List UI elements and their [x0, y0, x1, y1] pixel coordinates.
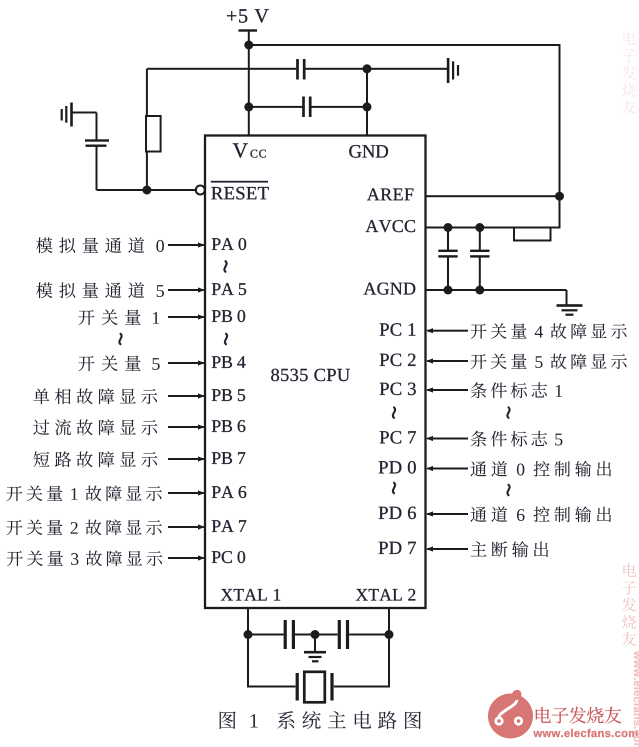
watermark logo url — [533, 729, 637, 737]
wire/arrow into pin PC7 — [426, 436, 468, 441]
pin label PA7 — [212, 520, 246, 532]
pin label PC0 — [212, 551, 245, 563]
label channel6 ctrl out — [471, 506, 612, 522]
wire AGND down to ground — [566, 290, 568, 305]
tilde between PD0-PD6 pin column — [393, 483, 395, 493]
pin label PB5 — [212, 389, 245, 401]
capacitor C5 lead bottom — [96, 147, 98, 190]
label overcurrent fault — [33, 419, 157, 435]
inductor L1 bump on AVCC wire — [514, 228, 551, 241]
pin label RESET — [211, 181, 269, 200]
ground G1 sideways left — [61, 103, 73, 127]
wire Vcc lead vertical — [248, 31, 250, 136]
tilde between condition flag labels — [507, 407, 509, 418]
node junction AREF — [555, 192, 564, 201]
wire/arrow into pin PB4 — [168, 360, 205, 365]
wire AREF pin — [426, 195, 561, 197]
label main break out — [471, 541, 548, 557]
pin label AVCC — [366, 220, 415, 232]
capacitor C3 lead top — [447, 228, 449, 250]
wire AVCC pin — [426, 227, 561, 229]
capacitor C4 lead top — [479, 228, 481, 250]
label switch5 fault disp — [471, 353, 627, 369]
capacitor C1 plates — [296, 59, 305, 80]
ground G2 sideways — [447, 58, 459, 83]
wire/arrow into pin PB0 — [168, 314, 205, 319]
wire mid ground stub — [314, 635, 316, 652]
pin label PD6 — [379, 507, 416, 519]
pin label PB6 — [212, 420, 245, 432]
wire RESET horizontal — [97, 189, 197, 191]
wire/arrow into pin PA6 — [168, 490, 205, 495]
capacitor C4 plates — [470, 250, 489, 258]
label analog channel 0 — [36, 237, 164, 253]
wire/arrow into pin PB5 — [168, 393, 205, 398]
wire row1 mid segment — [305, 68, 367, 70]
wire crystal right — [334, 686, 389, 688]
capacitor C5 plates — [85, 139, 109, 147]
power +5V terminal bar — [239, 29, 258, 31]
pin label PC7 — [380, 431, 416, 443]
node junction +5V/wireA — [244, 41, 253, 50]
wire cap row segment 3 — [349, 634, 389, 636]
wire row2 left segment — [249, 106, 302, 108]
pin label Vcc — [233, 143, 266, 157]
node junction row2 gnd lead — [363, 102, 372, 111]
pin label XTAL1 — [221, 589, 280, 601]
pin label PD0 — [379, 461, 416, 474]
pin label PA0 — [212, 238, 246, 250]
wire/arrow into pin PA7 — [168, 524, 205, 529]
wire ground G1 to cap — [72, 112, 97, 114]
capacitor C5 lead top — [96, 113, 98, 140]
capacitor C3 plates — [438, 250, 457, 258]
node junction xtal2 cap — [385, 630, 394, 639]
wire XTAL2 lead — [388, 608, 390, 687]
capacitor C7 plates — [338, 620, 349, 649]
label switch4 fault disp — [471, 323, 627, 339]
pin label PA5 — [212, 283, 246, 295]
wire crystal left — [248, 686, 295, 688]
pin label PC3 — [380, 383, 416, 395]
label channel0 ctrl out — [471, 461, 612, 477]
label short-circuit fault — [33, 451, 157, 467]
watermark logo circle — [488, 690, 533, 739]
node junction AVCC cap2 — [475, 223, 484, 232]
node junction row1 gnd lead — [363, 64, 372, 73]
wire/arrow into pin PD6 — [426, 511, 468, 516]
wire row1 to ground G2 — [367, 68, 447, 70]
resistor R1 lead top — [146, 69, 148, 116]
wire/arrow into pin PC1 — [426, 328, 468, 333]
pin label PC1 — [380, 323, 416, 335]
tilde between switch 1-5 labels — [119, 334, 121, 344]
reset bubble — [196, 186, 205, 195]
watermark right-edge vertical url — [634, 651, 639, 747]
ground G4 crystal — [304, 651, 326, 663]
crystal Y1 body — [304, 672, 325, 703]
tilde between channel ctrl labels — [507, 485, 509, 495]
crystal Y1 right plate — [330, 673, 333, 701]
label switch 1 — [78, 309, 159, 325]
power +5V label — [227, 9, 269, 23]
label switch2 fault disp — [6, 519, 161, 535]
capacitor C6 plates — [284, 620, 295, 649]
wire XTAL1 lead — [247, 608, 249, 687]
wire/arrow into pin PC0 — [168, 555, 205, 560]
node junction AVCC cap1 — [444, 223, 453, 232]
capacitor C4 lead bottom — [479, 258, 481, 291]
wire row1 gnd-net left segment — [147, 68, 296, 70]
pin label PB0 — [212, 310, 245, 322]
node junction cap-gnd mid — [311, 630, 320, 639]
watermark right-edge vertical brand — [622, 563, 636, 646]
capacitor C2 plates — [302, 97, 311, 118]
resistor R1 lead bottom — [146, 152, 148, 192]
wire vertical AREF to AVCC net — [559, 196, 561, 227]
resistor R1 body — [146, 116, 161, 152]
node junction row2 vcc lead — [244, 102, 253, 111]
tilde between PC3-PC7 pin column — [393, 407, 395, 418]
label switch 5 — [78, 355, 159, 371]
pin label XTAL2 — [356, 589, 415, 601]
pin label PA6 — [212, 486, 246, 498]
label switch1 fault disp — [6, 485, 161, 501]
watermark logo text — [536, 707, 622, 724]
wire GND pin lead vertical — [366, 69, 368, 136]
wire/arrow into pin PD7 — [426, 546, 468, 551]
wire/arrow into pin PA5 — [168, 287, 205, 292]
wire row2 right segment — [311, 106, 367, 108]
wire/arrow into pin PB7 — [168, 456, 205, 461]
capacitor C3 lead bottom — [447, 258, 449, 291]
pin label PB4 — [212, 356, 246, 368]
label condition flag 5 — [471, 431, 563, 447]
tilde between PB0-PB4 pin column — [225, 334, 227, 344]
label condition flag 1 — [471, 382, 562, 398]
pin label PC2 — [380, 354, 416, 366]
node junction AGND cap2 — [475, 286, 484, 295]
wire/arrow into pin PA0 — [168, 242, 205, 247]
node junction xtal1 cap — [244, 630, 253, 639]
pin label AREF — [367, 188, 413, 200]
tilde between PA0-PA5 — [224, 261, 226, 272]
label single-phase fault — [33, 388, 157, 404]
pin label AGND — [364, 283, 416, 295]
pin label GND top — [349, 145, 388, 158]
wire/arrow into pin PD0 — [426, 466, 468, 471]
CPU U1 8535 body — [205, 136, 426, 609]
wire cap row segment 1 — [248, 634, 284, 636]
wire A right vertical down to AREF — [559, 45, 561, 196]
CPU label 8535 CPU — [271, 369, 350, 381]
wire/arrow into pin PC2 — [426, 358, 468, 363]
node junction reset — [142, 186, 151, 195]
pin label PD7 — [379, 542, 416, 554]
wire/arrow into pin PB6 — [168, 424, 205, 429]
wire/arrow into pin PC3 — [426, 387, 468, 392]
label switch3 fault disp — [7, 550, 162, 566]
pin label PB7 — [212, 452, 245, 464]
label analog channel 5 — [36, 282, 164, 298]
wire AGND pin — [426, 289, 567, 291]
node junction AGND cap1 — [444, 286, 453, 295]
watermark top-right vertical brand — [622, 31, 636, 114]
ground G3 analog — [557, 304, 583, 316]
crystal Y1 left plate — [296, 673, 299, 701]
wire A horizontal +5V to right — [249, 44, 561, 46]
caption figure 1 title — [220, 711, 421, 729]
wire cap row segment 2 — [295, 634, 338, 636]
